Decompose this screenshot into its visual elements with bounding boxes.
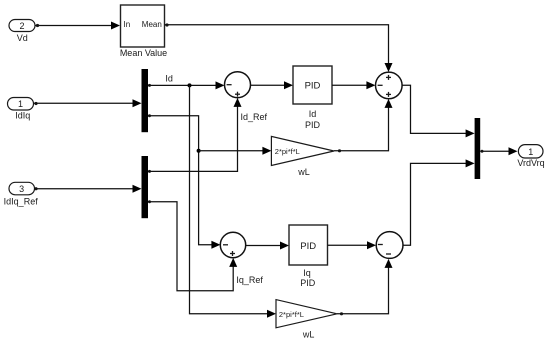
svg-text:Iq: Iq [303,268,311,278]
sum S3 [220,232,245,257]
inport 1 (IdIq) [8,98,34,121]
wire G1 to sum S2 bottom [334,99,393,152]
node Iq_Ref label [236,275,263,285]
svg-text:2*pi*f*L: 2*pi*f*L [275,147,300,156]
svg-text:2: 2 [19,21,24,31]
svg-text:wL: wL [302,330,315,340]
demux D1 [142,69,149,132]
sum S1 [225,72,251,98]
wire Iq branch to gain G1 [199,147,272,155]
svg-text:Vd: Vd [17,33,28,43]
svg-text:1: 1 [18,99,23,109]
node Id_Ref label [241,112,268,122]
wire D1 out2 (Iq) down to sum S3 [148,114,220,249]
wire IdIq_Ref to demux D2 [34,185,141,193]
wire PID1 to sum S2 [332,81,375,89]
svg-text:Mean: Mean [142,20,162,29]
wire PID2 to sum S4 [328,241,377,249]
PID controller block PID2 [289,225,328,288]
inport 2 (Vd) [9,20,35,44]
wire Vd to Mean Value [35,22,120,30]
svg-text:1: 1 [528,147,533,157]
svg-text:PID: PID [300,278,316,288]
svg-text:IdIq: IdIq [15,110,30,120]
wire IdIq to demux D1 [34,99,142,107]
mean value block U1 [120,5,167,58]
wire G2 to sum S4 bottom [337,259,393,316]
svg-text:PID: PID [305,81,321,92]
wire D2 out2 (Iq_Ref) to sum S3 bottom [148,200,237,290]
svg-text:PID: PID [300,241,316,252]
sum S4 [376,232,403,259]
svg-text:Id: Id [309,109,317,119]
gain G1 (2*pi*f*L) [271,136,334,177]
svg-text:Mean Value: Mean Value [120,48,167,58]
junction on Iq wire [197,149,201,153]
svg-text:IdIq_Ref: IdIq_Ref [4,197,39,207]
wire Id branch down to gain G2 [190,85,277,317]
wire S3 to PID2 [246,242,289,250]
svg-text:Id: Id [165,74,173,84]
svg-text:PID: PID [305,120,321,130]
wire S1 to PID1 [251,81,294,89]
wire mux to outport [480,147,517,155]
gain G2 (2*pi*f*L) [276,300,337,340]
inport 3 (IdIq_Ref) [4,182,39,206]
wire D1 out1 (Id) to sum S1 [148,81,225,89]
sum S2 [376,72,403,99]
wire Mean Value to sum S2 top [165,23,393,72]
svg-text:wL: wL [297,167,310,177]
PID controller block PID1 [293,66,332,130]
wire D2 out1 (Id_Ref) to sum S1 bottom [148,98,242,173]
wire S2 to mux input 1 [402,85,475,137]
wire S4 to mux input 2 [403,159,475,245]
node Id label [165,74,173,84]
svg-text:Iq_Ref: Iq_Ref [236,275,263,285]
svg-text:3: 3 [19,184,24,194]
junction on Id wire [188,83,192,87]
svg-text:2*pi*f*L: 2*pi*f*L [279,310,304,319]
svg-text:VrdVrq: VrdVrq [517,158,544,168]
svg-text:In: In [124,20,131,29]
mux M1 [475,118,481,179]
demux D2 [142,156,149,218]
svg-text:Id_Ref: Id_Ref [241,112,268,122]
outport 1 (VrdVrq) [517,145,544,168]
